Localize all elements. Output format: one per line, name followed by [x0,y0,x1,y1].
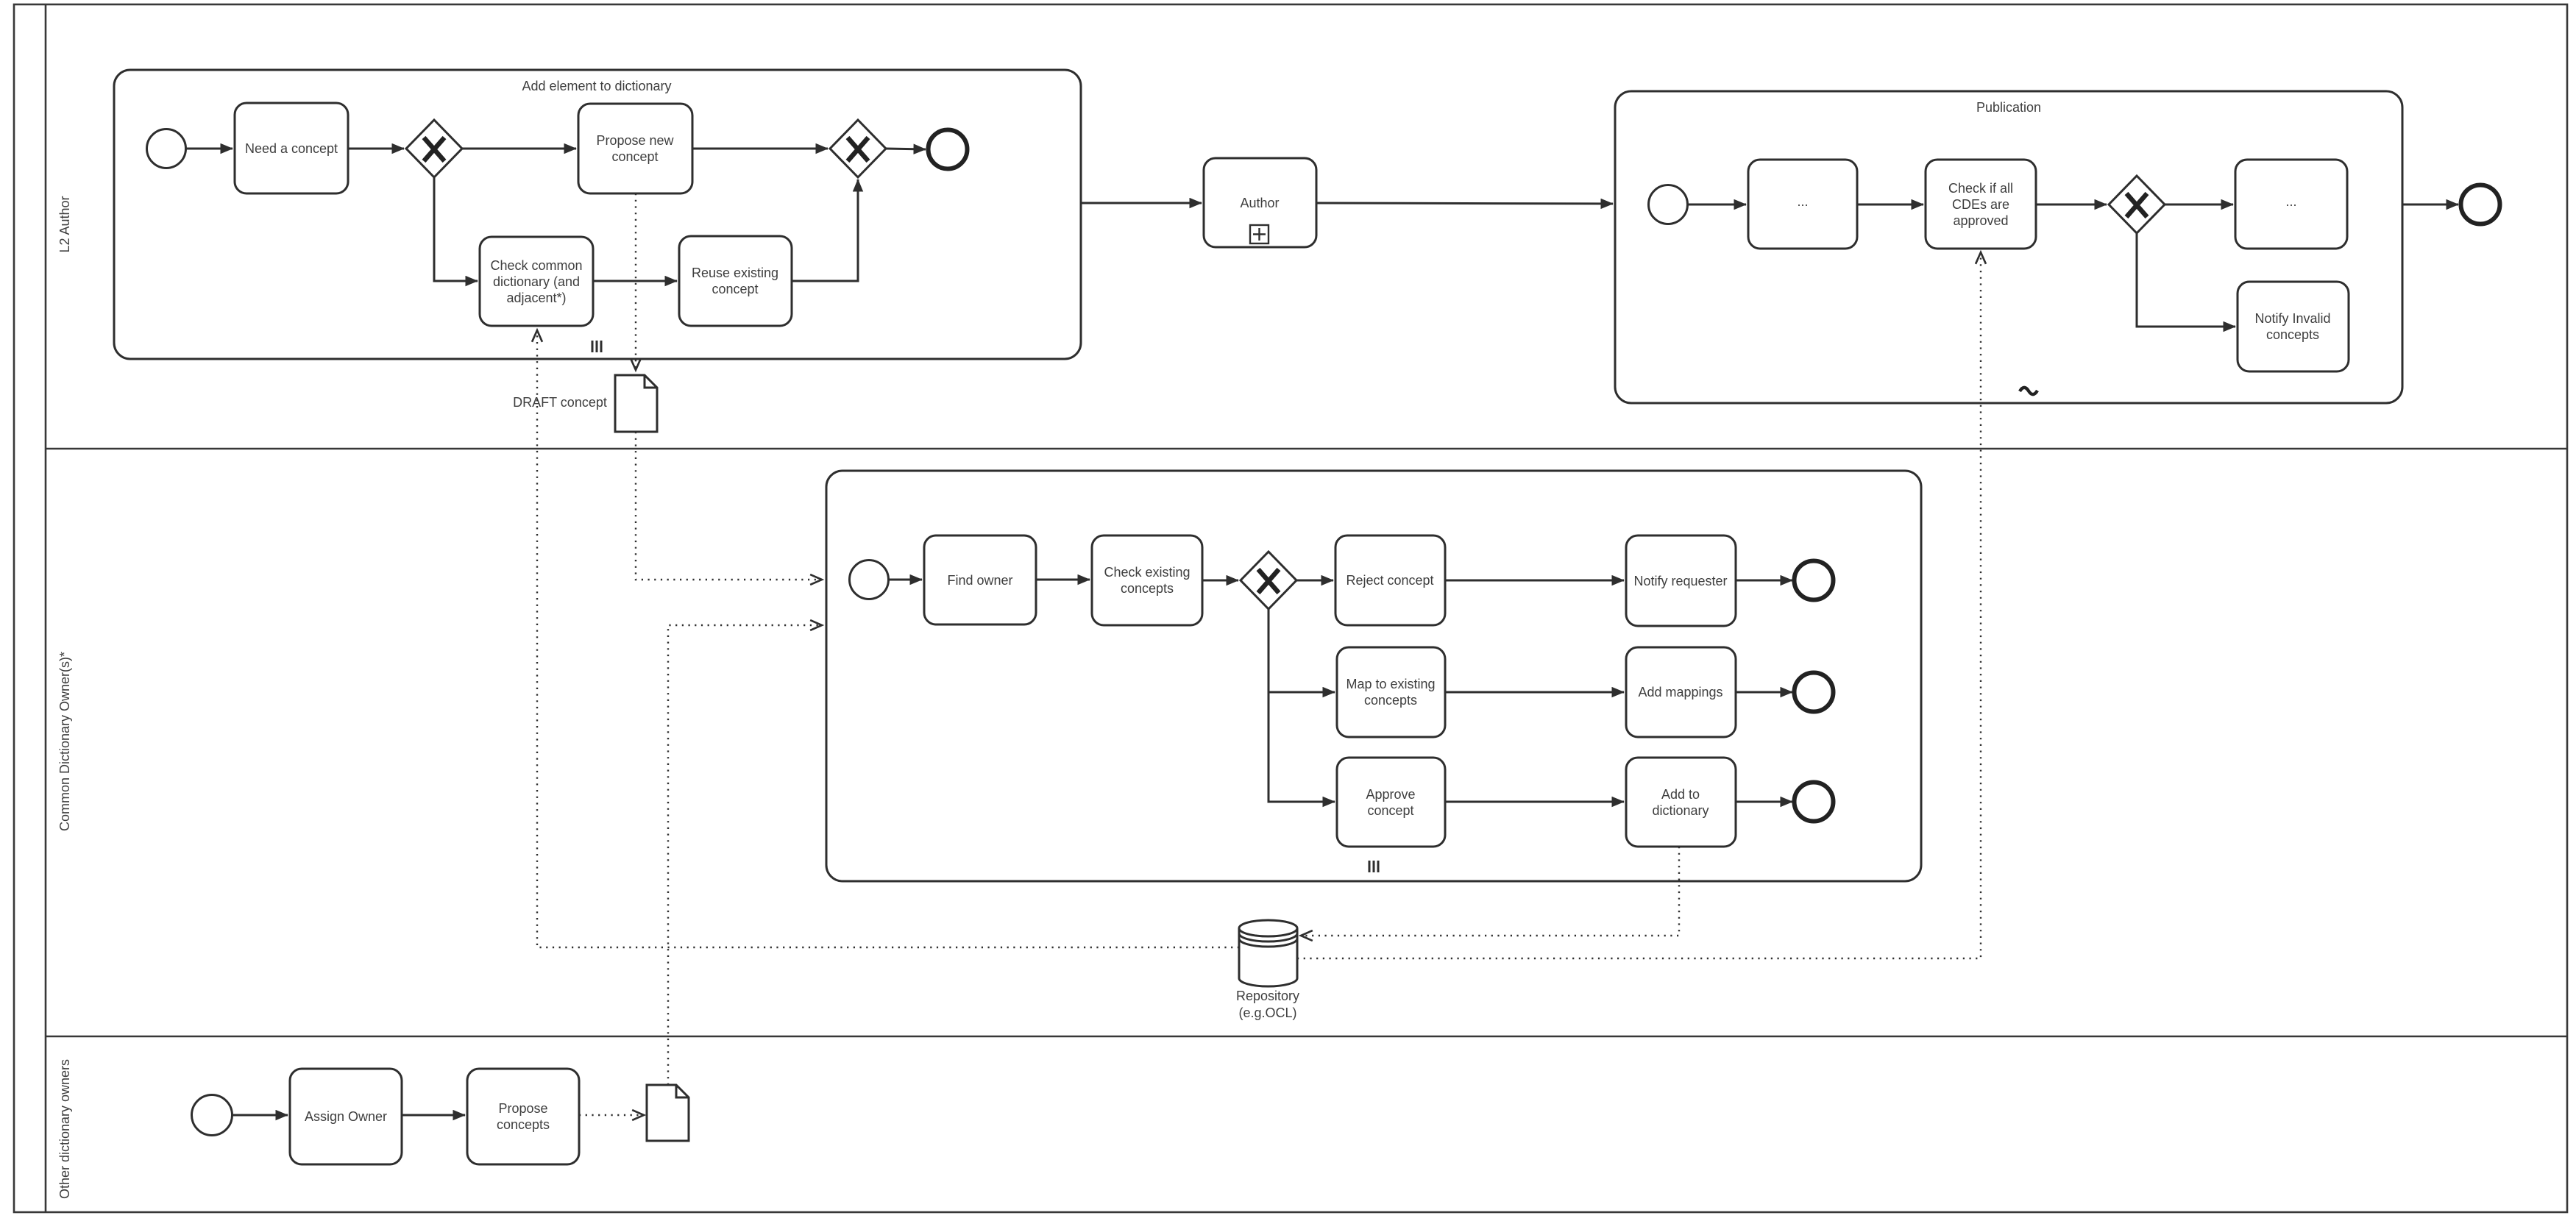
task Need a concept [235,103,348,193]
svg-text:Publication: Publication [1976,100,2041,115]
wire gateway1 to Propose new concept [462,148,576,150]
svg-text:...: ... [1797,194,1808,209]
svg-text:DRAFT concept: DRAFT concept [513,395,607,410]
svg-text:dictionary (and: dictionary (and [493,274,580,289]
svg-text:approved: approved [1953,213,2008,228]
start event (Other dictionary owners) [192,1095,233,1136]
data store Repository [1239,928,1297,986]
task Propose concepts [467,1069,579,1164]
pool lane-label separator [45,4,47,1212]
wire Map to existing to Add mappings [1445,691,1624,694]
task Add to dictionary [1626,758,1736,847]
svg-text:adjacent*): adjacent*) [506,291,566,305]
svg-text:Map to existing: Map to existing [1346,677,1435,691]
wire Reuse existing concept to gateway2 [792,179,858,281]
svg-text:Repository: Repository [1236,989,1299,1003]
subprocess Publication [1615,91,2402,403]
wire Add to dictionary to end3c [1736,801,1792,803]
task Check if all CDEs are approved [1926,160,2036,249]
collapsed marker of Author [1250,225,1269,243]
start event (Publication) [1649,185,1688,224]
wire start3 to Find owner [889,579,922,581]
svg-text:concepts: concepts [1364,693,1417,708]
wire gateway3 down to Approve concept [1269,692,1335,802]
dotted wire Repository to Check common dictionary [537,330,1239,947]
multi-instance marker of Add element subprocess [592,341,601,352]
end event middle 3 [1795,783,1834,822]
svg-text:concepts: concepts [497,1117,550,1132]
wire gatewayP down to Notify invalid concepts [2137,233,2235,327]
svg-text:L2 Author: L2 Author [57,196,72,252]
task Check common dictionary (and adjacent*) [480,237,593,326]
svg-text:concepts: concepts [2266,327,2319,342]
wire Publication to end event [2402,204,2458,206]
svg-text:concept: concept [611,149,658,164]
wire Propose new concept to gateway2 [692,148,828,150]
task Assign Owner [290,1069,402,1164]
dotted wire data object up to middle subprocess [668,625,822,1085]
svg-text:Add to: Add to [1661,787,1700,802]
wire gatewayP to second ... task [2165,204,2233,206]
svg-text:Reuse existing: Reuse existing [692,266,778,280]
svg-text:(e.g.OCL): (e.g.OCL) [1238,1005,1296,1020]
multi-instance marker of middle subprocess [1369,861,1378,872]
task Reject concept [1335,535,1445,625]
gateway X middle [1241,552,1296,609]
task Reuse existing concept [679,236,792,326]
dotted wire Repository to Check if all CDEs are approved [1297,252,1981,958]
svg-text:Need a concept: Need a concept [245,141,338,156]
end event (main, right) [2461,185,2500,224]
wire gateway3 down to Map to existing concepts [1269,609,1335,692]
gateway X 2 [830,120,886,177]
task Notify invalid concepts [2238,282,2349,371]
wire start1 to Need a concept [186,148,233,150]
svg-text:Check if all: Check if all [1948,181,2013,196]
svg-text:...: ... [2285,194,2296,209]
svg-text:Common Dictionary Owner(s)*: Common Dictionary Owner(s)* [57,652,72,831]
end event middle 2 [1795,673,1834,712]
svg-text:Assign Owner: Assign Owner [305,1109,387,1124]
svg-text:Check common: Check common [490,258,582,273]
wire Assign Owner to Propose concepts [402,1114,465,1117]
task Check existing concepts [1092,535,1202,625]
svg-text:Notify Invalid: Notify Invalid [2254,311,2330,326]
start event (Add element) [147,129,186,168]
end event (Add element) [929,130,968,169]
wire gateway1 down to Check common dictionary [434,177,478,281]
wire Reject concept to Notify requester [1445,580,1624,582]
wire gateway2 to end event [886,149,926,149]
svg-text:Notify requester: Notify requester [1633,574,1727,588]
wire start4 to Assign Owner [232,1114,288,1117]
data object DRAFT concept [615,375,657,432]
svg-text:Author: Author [1240,196,1279,210]
gateway X publication [2109,176,2165,233]
task ... (second) [2235,160,2347,249]
end event middle 1 [1795,561,1834,600]
wire Author to Publication subprocess [1316,203,1613,204]
start event (middle) [850,560,889,599]
task ... (first) [1748,160,1857,249]
task Find owner [924,535,1036,624]
svg-text:Approve: Approve [1366,787,1415,802]
svg-text:concepts: concepts [1121,581,1174,596]
svg-text:Add element to dictionary: Add element to dictionary [522,79,671,93]
wire Add element subprocess to Author [1081,202,1202,204]
svg-text:Propose: Propose [498,1101,547,1116]
dotted wire Propose concepts to data object [579,1114,644,1116]
svg-text:dictionary: dictionary [1652,803,1709,818]
task Notify requester [1626,535,1736,626]
wire Approve concept to Add to dictionary [1445,801,1624,803]
svg-text:Propose new: Propose new [596,133,674,148]
wire ... to Check if all CDEs [1857,204,1923,206]
ad-hoc tilde marker of Publication [2020,388,2037,394]
task Map to existing concepts [1337,647,1445,737]
task Add mappings [1626,647,1736,737]
wire gateway3 to Reject concept [1296,580,1333,582]
svg-text:Other dictionary owners: Other dictionary owners [57,1059,72,1199]
data object proposed concepts [647,1085,689,1141]
gateway X 1 [406,120,462,177]
svg-text:Add mappings: Add mappings [1638,685,1722,700]
wire Notify requester to end3a [1736,580,1792,582]
task Author (collapsed subprocess) [1204,158,1316,247]
svg-text:Reject concept: Reject concept [1346,573,1433,588]
wire Add mappings to end3b [1736,691,1792,694]
wire Need a concept to gateway1 [348,148,404,150]
wire Check if all CDEs to gatewayP [2036,204,2107,206]
lane separator 2 [46,1036,2567,1038]
dotted wire Propose new concept to DRAFT concept [635,193,636,370]
svg-text:CDEs are: CDEs are [1952,197,2009,212]
task Propose new concept [578,104,692,193]
subprocess middle (Common Dictionary Owners) [826,471,1921,881]
svg-text:concept: concept [712,282,758,296]
wire Check common dictionary to Reuse existing concept [593,280,677,282]
svg-text:Find owner: Find owner [947,573,1012,588]
lane separator 1 [46,448,2567,450]
wire Check existing concepts to gateway3 [1202,580,1238,582]
subprocess Add element to dictionary [114,70,1081,359]
wire Find owner to Check existing concepts [1036,579,1090,581]
svg-text:Check existing: Check existing [1104,565,1190,580]
dotted wire DRAFT concept to middle subprocess [636,432,822,580]
wire startP to first ... task [1688,204,1746,206]
dotted wire Add to dictionary to Repository [1301,847,1679,936]
svg-text:concept: concept [1367,803,1413,818]
task Approve concept [1337,758,1445,847]
